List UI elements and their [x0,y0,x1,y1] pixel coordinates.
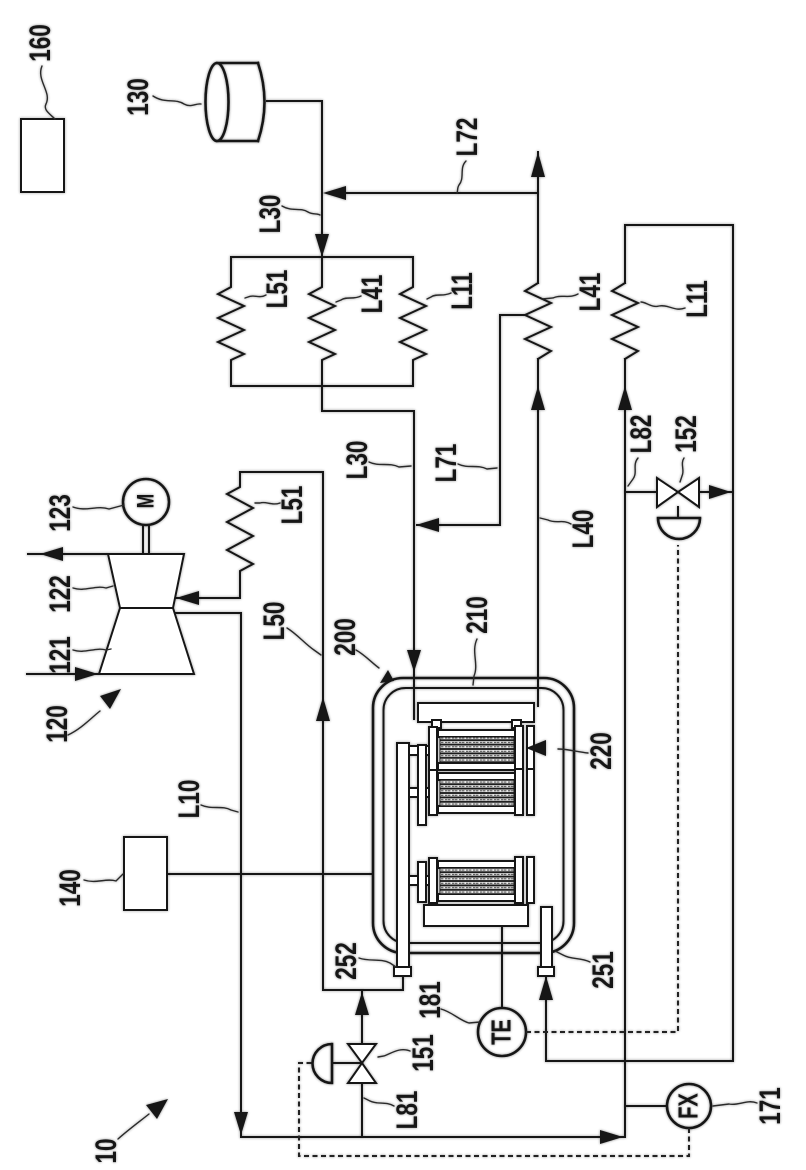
arrowhead into L82 line [600,1130,623,1144]
header connector stubs [432,720,441,728]
leader L51 turbine [255,503,280,504]
leader 123 [73,505,124,509]
svg-text:L81: L81 [390,1091,424,1130]
sensor FX [625,1105,667,1107]
wire L30 from tank [267,101,322,257]
valve 151 stem [332,1062,362,1064]
valve 152 stem [677,507,679,518]
leader L11 right [641,302,685,309]
leader L71 [458,464,497,469]
arrowhead L30 into vessel [407,650,421,672]
wire valve151 riser [361,990,363,1137]
svg-text:152: 152 [669,415,703,453]
winding element (bottom) [429,857,534,903]
tank 130 [206,63,265,141]
valve 152 actuator dome [658,518,700,539]
coil L41 right group [525,283,551,359]
leader L82 [628,458,638,486]
arrowhead 122 outlet [40,547,63,561]
internal top header [418,703,534,722]
arrow leader 120 [68,711,100,735]
bottom supply wire [241,1136,624,1138]
leader L41 bank [336,296,361,302]
sensor TE [478,1008,526,1056]
leader L81 [364,1098,394,1106]
arrowhead up L40 [531,386,545,410]
svg-text:121: 121 [43,636,77,674]
arrowhead up L50 [316,697,330,721]
internal pipe 251 [541,907,552,969]
turbine 121 [99,608,194,674]
leader L50 [287,628,321,655]
leader 140 [84,874,123,881]
arrowhead top vent [531,152,545,177]
arrowhead 152 branch [709,485,731,499]
svg-text:140: 140 [53,869,87,907]
leader L10 [201,805,238,812]
valve 151 actuator dome [313,1044,333,1083]
wire L10 from turbine [175,613,241,1137]
coil L11 in bank [400,257,426,386]
compressor 122 [108,554,184,608]
arrowhead L72 into L30 [323,186,346,200]
leader L72 [457,161,466,193]
svg-text:10: 10 [89,1138,123,1163]
leader 252 [359,958,396,967]
svg-text:181: 181 [413,981,447,1019]
leader 160 [41,66,55,119]
svg-text:151: 151 [406,1034,440,1072]
wire 122 outlet [28,553,108,555]
valve 151 [348,1044,376,1083]
svg-text:L50: L50 [257,602,291,641]
svg-text:TE: TE [487,1019,518,1045]
wire L11 right riser and loop [546,225,733,1137]
leader 251 [555,951,590,962]
svg-text:171: 171 [753,1087,787,1125]
svg-text:220: 220 [584,732,618,770]
svg-text:120: 120 [40,705,74,743]
svg-text:L40: L40 [566,510,600,549]
vessel 210 inner shell [384,688,564,943]
arrowhead L71 into L30 [416,518,439,532]
thermo line 181 [501,926,503,1008]
leader 121 [73,649,111,651]
svg-text:210: 210 [460,596,494,634]
svg-text:L72: L72 [450,118,484,157]
arrowhead up into pipe 251 [539,976,553,1000]
svg-text:L82: L82 [624,415,658,454]
vessel 200 outer shell [373,678,574,953]
wire branch to valve 152 [625,491,731,493]
dashed signal TE to 152 [526,545,678,1032]
wire L50 [240,472,403,990]
svg-text:L10: L10 [172,780,206,819]
stub pipe to element 1 [409,746,429,755]
wire L30 lower jog to vessel [322,386,414,719]
leader L41 right [542,294,578,299]
svg-text:130: 130 [121,78,155,116]
svg-text:251: 251 [586,951,620,989]
left manifold bar lower [418,862,426,902]
svg-text:L41: L41 [355,275,389,314]
svg-text:122: 122 [43,575,77,613]
left manifold bar upper [418,745,426,825]
arrow leader 220 [558,749,588,753]
valve 152 [657,478,699,507]
wire L30 inside vessel [413,678,415,719]
svg-text:L30: L30 [253,195,287,234]
wire L72 [345,192,538,194]
internal bottom header [424,905,528,926]
controller box 160 [21,119,64,192]
coil L51 at turbine [227,472,253,598]
leader 171 [713,1102,757,1106]
arrowhead 121 inlet [75,667,98,681]
stub pipe to element 3 [409,876,429,885]
svg-text:L71: L71 [429,444,463,483]
arrowhead up into L50 line [355,992,369,1015]
leader L40 [540,518,571,524]
winding element (middle) [429,769,534,815]
leader 130 [153,96,201,106]
motor 123 circle [123,479,169,525]
svg-text:252: 252 [329,942,363,980]
wire 140 to vessel [167,873,373,875]
svg-text:L11: L11 [680,280,714,318]
wire 121 inlet [27,673,99,675]
wire L40 inside vessel [537,678,539,706]
heater box 140 [124,837,167,910]
svg-text:L51: L51 [260,270,294,309]
coil L11 right group [612,283,638,359]
arrowhead into 122 [176,591,199,605]
internal pipe 252 [397,743,409,969]
arrow leader 200 [356,650,379,668]
leader 210 [473,639,477,685]
leader 151 [378,1050,410,1057]
svg-text:M: M [133,494,159,508]
svg-text:160: 160 [23,24,57,62]
arrowhead L30 into exchanger [315,234,329,257]
wire L71 [417,315,525,525]
winding element 220 (top) [429,726,534,772]
dashed signal FX to 151 [299,1063,689,1156]
arrowhead down L10 [234,1112,248,1135]
leader L30 lower [369,462,411,467]
coil L41 in bank [309,257,335,386]
leader L51 bank [245,295,266,298]
svg-text:L41: L41 [573,273,607,312]
svg-text:L11: L11 [445,272,479,310]
arrowhead up L82 [618,386,632,410]
motor shaft [143,525,149,554]
leader 152 [680,458,684,482]
leader 122 [73,586,113,589]
arrow leader 10 [118,1114,149,1139]
leader L30 upper [282,206,320,215]
wire L40/L72 riser [537,152,539,706]
svg-text:FX: FX [674,1093,705,1119]
leader 181 [441,1009,480,1023]
svg-text:L30: L30 [340,441,374,480]
stub pipe to element 2 [409,788,429,797]
svg-text:L51: L51 [275,486,309,525]
coil L51 in bank [218,257,244,386]
svg-text:123: 123 [43,494,77,532]
wire L51 into compressor [176,597,240,599]
heat exchanger bank top: header lines [231,257,413,386]
leader L11 bank [427,293,451,299]
